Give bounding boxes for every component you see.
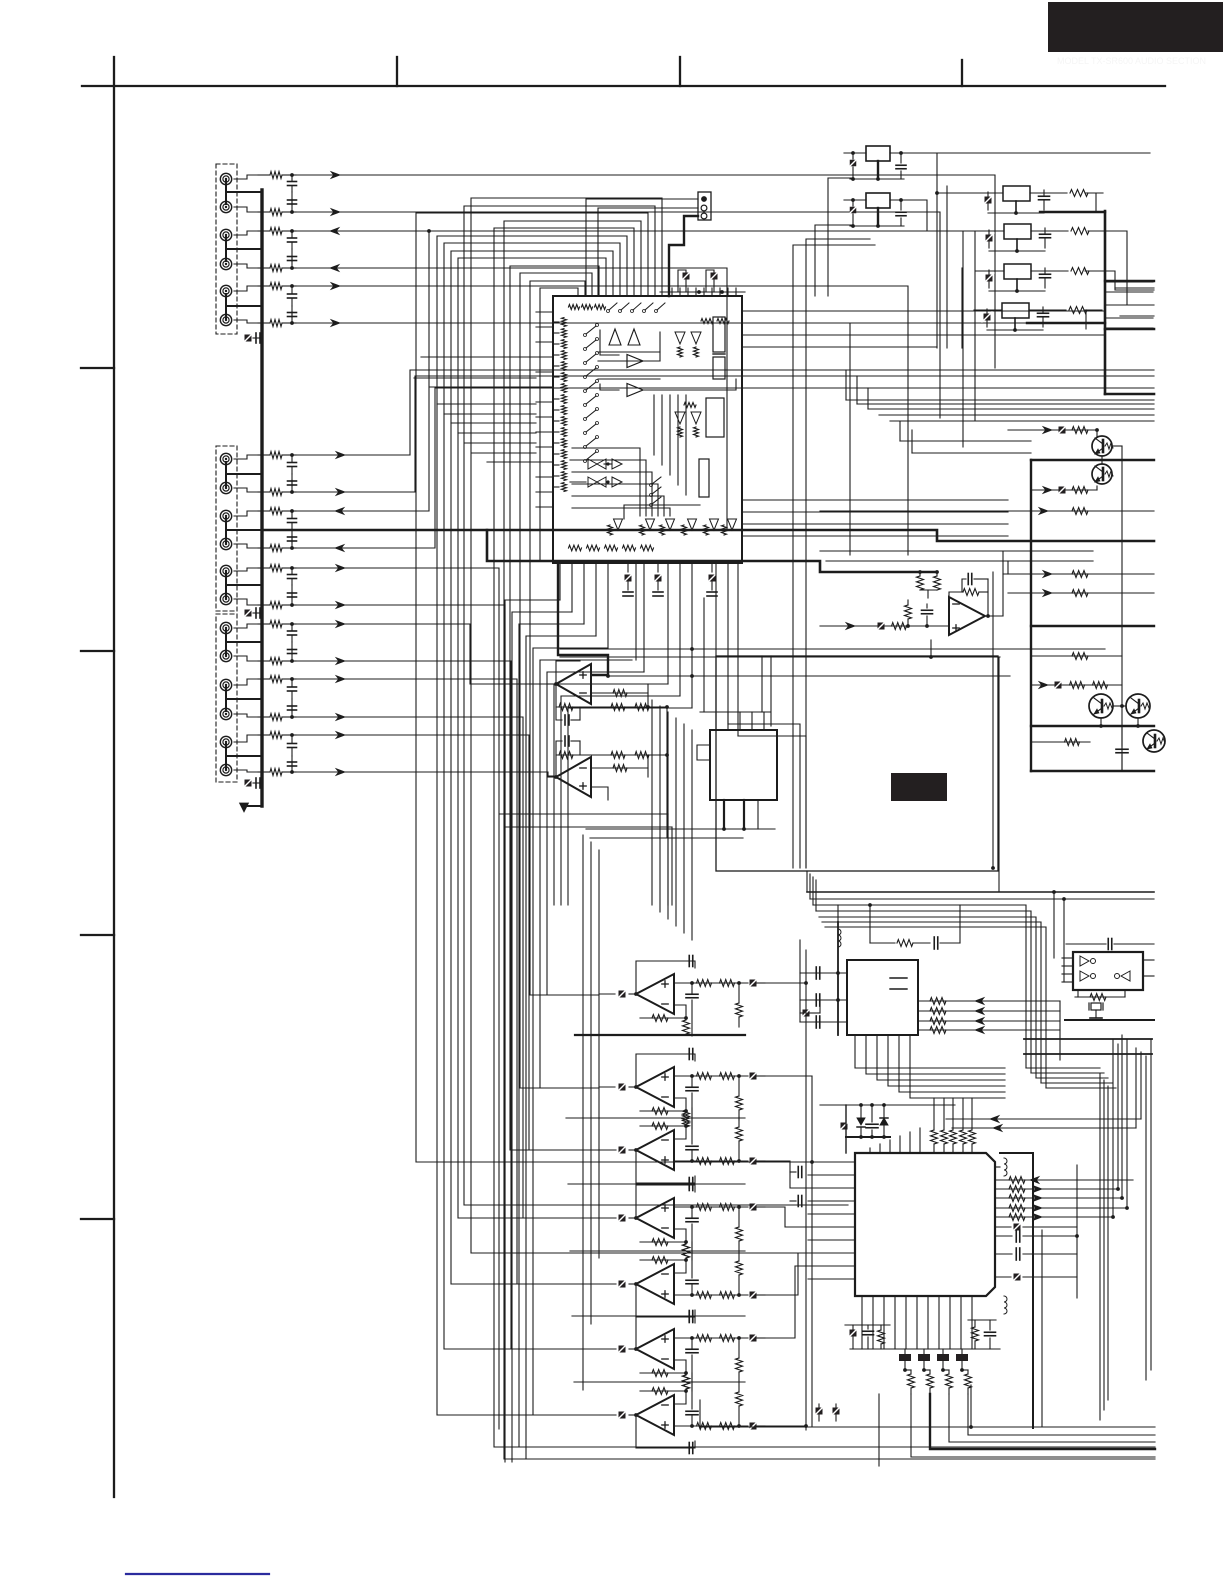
wire U1 internal f	[570, 459, 586, 461]
wire CN2 signal 6	[296, 605, 616, 1415]
wire FL3 in	[976, 270, 1004, 272]
bead U5 right	[1014, 1224, 1021, 1231]
resistor U1 G	[701, 319, 713, 324]
wire table feed y400	[846, 399, 1154, 401]
wire relay RY2 out	[892, 200, 976, 231]
RCA jack CN1-5	[220, 285, 231, 296]
wire u4 right risers	[1059, 1001, 1061, 1060]
resistor R B4 out gnd	[736, 1227, 743, 1241]
wire B7 out row	[674, 1425, 748, 1427]
wire band-to-U1 1	[421, 356, 536, 358]
arrow U4 row 4	[975, 1027, 984, 1034]
wire U5 bottom pin 5	[905, 1296, 907, 1349]
wire right row y281 heavy	[1105, 280, 1154, 282]
wire web route 7	[444, 243, 620, 1349]
capacitor C B7 fb	[688, 1443, 690, 1454]
bead FB B4 out	[750, 1204, 757, 1211]
row y593: arrow+res	[1008, 592, 1154, 594]
capacitor C28	[291, 649, 293, 662]
transistor Q3	[1089, 694, 1113, 718]
wire U5 left col x846	[845, 1105, 847, 1153]
wire U1 bottom pin 9	[657, 563, 659, 572]
capacitor A2 comp	[556, 741, 562, 755]
wire U5 left pin 6	[808, 1226, 855, 1228]
wire FL col x975	[974, 231, 976, 420]
resistor A2 in	[613, 765, 627, 772]
bead FB U5 top	[841, 1123, 848, 1130]
FL5 bowtie b	[1080, 971, 1089, 981]
jumper W2	[923, 1349, 925, 1354]
op-amp B1 plus	[662, 983, 668, 985]
wire drop right a	[728, 724, 800, 868]
capacitor C U5 r1	[995, 1235, 1012, 1237]
wire CN1 shield tie 3	[225, 294, 227, 318]
wire right bundle y305	[1105, 304, 1153, 306]
resistor U1 input array 16	[562, 483, 567, 492]
wire FL col x962	[961, 268, 963, 348]
wire RY1 top	[844, 152, 866, 154]
bead FB B2 out	[750, 1073, 757, 1080]
wire RY2 top	[844, 199, 866, 201]
wire right band v3	[1107, 1086, 1109, 1400]
wire U1 right pin 8	[742, 535, 1008, 537]
resistor R24	[258, 547, 270, 549]
wire U5 top pin 3	[889, 1140, 891, 1153]
resistor R B6 gnd	[683, 1375, 690, 1389]
op-amp B3 plus	[662, 1159, 668, 1161]
arrow CN2 signal 7	[336, 621, 345, 628]
wire U1 bottom pin 14	[715, 563, 717, 712]
wire CN1 signal 4	[296, 268, 727, 530]
wire U5 left pin 2	[808, 1174, 855, 1176]
row y490: arrow+bead+res	[1031, 489, 1097, 491]
resistor R B5 out gnd	[736, 1261, 743, 1275]
resistor U1 bottom row 1	[569, 545, 582, 551]
resistor R B7b	[720, 1423, 735, 1430]
capacitor C FL5 top	[1066, 943, 1106, 945]
resistor U1 input array 4	[562, 351, 567, 360]
capacitor C29	[291, 679, 293, 686]
op-amp B4 plus	[662, 1207, 668, 1209]
capacitor C B5 fb	[688, 1312, 690, 1323]
wire CN1 shield tie 2	[225, 237, 227, 261]
op-amp B6 minus	[662, 1358, 668, 1360]
wire U1 bottom pin 12	[691, 563, 693, 708]
wire U5 bottom pin 9	[949, 1296, 951, 1349]
RCA jack CN2-2	[220, 482, 231, 493]
resistor R U5 top 4	[962, 1098, 964, 1130]
resistor R FL3	[1071, 268, 1089, 275]
table row y771 bottom	[1031, 770, 1154, 772]
buffer U1 A	[609, 329, 621, 345]
driver U1 bottom 1	[614, 519, 623, 530]
junction long-run x429	[427, 229, 431, 233]
wire U1 bottom pin 11	[679, 563, 681, 696]
wire Q3 drop	[1100, 719, 1102, 726]
wire table feed y409	[868, 408, 1154, 410]
resistor R B3 out gnd	[736, 1127, 743, 1141]
wire B2 fb tail	[640, 1098, 686, 1111]
block U1 K	[706, 398, 724, 437]
wire U5 left pin 10	[808, 1278, 855, 1280]
title block (filled)	[1048, 2, 1223, 52]
resistor U3 series	[892, 623, 907, 630]
wire U1 left pin 7	[536, 401, 553, 403]
wire right band v1	[1099, 1074, 1101, 1420]
wire x937 drop	[936, 153, 938, 348]
wire row y814 riser	[667, 814, 669, 905]
arrow U4 row 1	[975, 998, 984, 1005]
wire B3 fb tail	[640, 1126, 686, 1139]
resistor R B4 gnd	[683, 1244, 690, 1258]
wire B6 loop	[636, 1316, 695, 1349]
wire U4 right pin row 4	[918, 1029, 1060, 1031]
op-amp B4 body	[636, 1198, 674, 1238]
svg-text:MODEL TX-SR600 AUDIO SECTION: MODEL TX-SR600 AUDIO SECTION	[1057, 56, 1206, 66]
wire band-to-U1 10	[487, 461, 536, 463]
resistor U1 input array 15	[562, 472, 567, 481]
wire web route 13	[471, 198, 848, 1253]
wire B6 input	[600, 1348, 615, 1350]
arrow CN1 signal 3	[330, 228, 339, 235]
resistor A2 fb1	[611, 752, 625, 759]
bead FB FL1	[985, 197, 992, 204]
RCA jack CN2-9	[220, 679, 231, 690]
resistor R B4b	[720, 1204, 735, 1211]
switch U1 3	[586, 354, 596, 362]
wire x947 drop	[946, 186, 948, 348]
capacitor U3 in	[926, 604, 928, 608]
bead FB1 with cap at CN1 bottom	[245, 335, 252, 342]
RCA jack CN2-1	[220, 453, 231, 464]
bead FB2 with cap between CN2/CN3	[245, 610, 252, 617]
wire table feed y404	[857, 403, 1154, 405]
wire U5 left pin 7	[808, 1239, 855, 1241]
wire U1 internal h	[624, 505, 700, 519]
wire U1 left pin 3	[536, 341, 553, 343]
capacitor C B6 fb	[688, 1311, 690, 1322]
wire B1 out row	[674, 982, 748, 984]
block U1 I	[713, 317, 725, 352]
IC U4 inner mark2	[890, 988, 907, 990]
wire row y827 riser	[671, 827, 673, 905]
wire heavy run y561	[487, 530, 937, 572]
wire jumper tail 2	[930, 1394, 1155, 1449]
capacitor C FL1	[1043, 190, 1045, 195]
wire U1 left pin 14	[536, 506, 553, 508]
resistor U1 input array 7	[562, 384, 567, 393]
wire right band v9	[1140, 1052, 1142, 1119]
wire FL4 out	[1085, 310, 1086, 329]
diode D2	[883, 1105, 885, 1118]
opamp U1 C	[627, 355, 643, 368]
capacitor C210	[291, 705, 293, 717]
wire heavy y329 row	[1105, 328, 1154, 331]
wire U1 right pin 5	[742, 499, 1008, 501]
op-amp B5 body	[636, 1264, 674, 1304]
wire band-to-U1 2	[414, 377, 536, 379]
resistor R13	[258, 230, 270, 232]
wire table feed risers	[845, 370, 847, 400]
wire right hbundle risers	[806, 871, 808, 892]
switch U1 6	[586, 396, 596, 404]
wire bus drop 7	[547, 672, 644, 995]
switch U1 Q col	[652, 477, 661, 484]
wire FL1 in	[937, 192, 1003, 194]
resistor R U4r2	[930, 1008, 946, 1015]
wire table feed y415	[879, 414, 1154, 416]
resistor R U5 top 2	[943, 1098, 945, 1130]
inductor L U5 b	[1004, 1296, 1007, 1314]
transistor Q2	[1092, 464, 1112, 484]
resistor R22	[258, 491, 270, 493]
wire FL5 xtal stub	[1095, 1010, 1097, 1018]
wire right hbundle y899	[810, 898, 1154, 900]
wire B3 out row	[674, 1160, 748, 1162]
resistor U1 top row 3	[595, 305, 606, 310]
inverter U1 L	[675, 412, 685, 424]
op-amp B3 minus	[662, 1139, 668, 1141]
wire web route 4	[510, 266, 614, 1150]
table outline left edge	[1030, 460, 1032, 771]
frame tick left A	[81, 367, 114, 369]
bead FB FL4	[984, 314, 991, 321]
resistor U1 input array 3	[562, 340, 567, 349]
resistor R212	[258, 771, 270, 773]
wire B6 fb tail	[640, 1360, 686, 1373]
capacitor C12	[291, 199, 293, 212]
driver U1 bottom 5	[710, 519, 719, 530]
filter FL5 outline	[1073, 952, 1143, 990]
wire center drop v2	[590, 842, 592, 1324]
resistor U1 input array 10	[562, 417, 567, 426]
wire center drop v7	[675, 718, 677, 926]
wire A1 fb row	[556, 684, 667, 707]
arrow U5 row 2	[1033, 1186, 1042, 1193]
wire U5 bottom pin 7	[927, 1296, 929, 1349]
capacitor C14	[291, 256, 293, 269]
wire FL4 out	[1029, 309, 1066, 311]
wire B3 input	[600, 1149, 615, 1151]
wire right bundle y282	[1105, 281, 1153, 283]
wire left drop to bundle	[878, 1394, 880, 1466]
row y574: arrow+res	[1003, 573, 1154, 575]
wire U5 top pin 6	[919, 1128, 921, 1153]
wire J1 heavy drop	[669, 216, 698, 296]
wire center drop v5	[659, 706, 661, 912]
mixer U1 O bowtie	[588, 459, 597, 469]
wire U5 left pin 4	[808, 1200, 855, 1202]
wire CN2 signal 10	[296, 717, 616, 1218]
resistor R16	[258, 322, 270, 324]
wire FL2 out	[1088, 231, 1154, 305]
wire U4 bottom pins	[855, 1035, 1005, 1068]
resistor R U4 top	[870, 942, 895, 944]
wire U5 left pin 8	[808, 1252, 855, 1254]
wire center drop v4	[651, 700, 653, 905]
jumper W1	[904, 1349, 906, 1354]
wire top y153	[937, 152, 1150, 154]
wire B5 fb tail	[640, 1260, 686, 1273]
wire U5 top rail y1105	[820, 1104, 955, 1106]
wire FL1 bottom rail	[988, 212, 1044, 214]
wire right band v10	[1145, 1056, 1147, 1380]
resistor R26	[258, 604, 270, 606]
transistor Q4	[1126, 694, 1150, 718]
wire U5 left pin 9	[808, 1265, 855, 1267]
capacitor C U5 r2	[995, 1253, 1012, 1255]
capacitor C table	[1121, 726, 1123, 746]
inverter U1 E	[675, 332, 685, 344]
arrow CN1 signal 4	[330, 265, 339, 272]
resistor R U5 r3	[1009, 1195, 1025, 1202]
resistor R B1 gnd	[683, 1020, 690, 1034]
wire table feed y441	[900, 440, 1031, 442]
wire right hbundle y917	[819, 917, 1036, 1078]
bead FB B5 out	[750, 1292, 757, 1299]
bead FB B4 in	[619, 1215, 626, 1222]
label block (filled)	[891, 773, 947, 801]
resistor R211	[258, 734, 270, 736]
arrow CN2 signal 5	[336, 565, 345, 572]
frame tick left B	[81, 650, 114, 652]
wire U1 right pin 4	[742, 346, 937, 348]
bead FB top a	[683, 273, 690, 280]
filter FL4 outline	[1002, 303, 1029, 318]
wire center drop v3	[598, 850, 600, 1258]
switch U1 4	[586, 368, 596, 376]
resistor U1 bottom row 3	[605, 545, 618, 551]
wire FL3 out	[1085, 271, 1154, 290]
wire gray row y1039	[1024, 1038, 1152, 1040]
wire U5 bottom pin 10	[960, 1296, 962, 1349]
wire U5 bottom pin 1	[861, 1296, 863, 1349]
wire U1 bottom pin 7	[635, 563, 637, 660]
arrow CN1 signal 2	[331, 209, 340, 216]
arrow CN2 signal 10	[336, 714, 345, 721]
RCA jack CN2-10	[220, 708, 231, 719]
wire CN2 shield tie 4	[225, 630, 227, 654]
wire heavy run y530	[262, 530, 1154, 541]
resistor R12	[258, 211, 270, 213]
wire long y649	[560, 648, 1105, 650]
wire right band v8	[1135, 1048, 1137, 1128]
switch U1 1	[586, 326, 596, 334]
wire bus drop 4	[526, 636, 596, 1459]
arrow U4 row 3	[975, 1018, 984, 1025]
wire U1 bottom pin 6	[627, 563, 629, 572]
capacitor C B4 gnd	[691, 1207, 693, 1218]
driver U1 bottom 6	[728, 519, 737, 530]
wire U1 left pin 8	[536, 416, 553, 418]
resistor R B4a	[697, 1204, 712, 1211]
wire CN2 signal 2	[296, 376, 1154, 492]
capacitor A1 comp	[556, 707, 562, 720]
wire web route 9	[494, 228, 1155, 1447]
wire U1 left pin 6	[536, 386, 553, 388]
frame tick left C	[81, 934, 114, 936]
arrow U5 row 5	[1033, 1214, 1042, 1221]
wire U2 top loop	[700, 711, 770, 713]
bead U5 right low	[1014, 1274, 1021, 1281]
capacitor U3 fb	[962, 579, 966, 592]
resistor A1 fb1	[611, 704, 625, 711]
wire U5 bottom pin 4	[894, 1296, 896, 1349]
footer rule (blue)	[126, 1573, 269, 1575]
wire U1 right pin 6	[742, 511, 1008, 513]
wire center drop v8	[683, 724, 685, 933]
IC U1 outline	[553, 296, 742, 563]
resistor U1 input array 5	[562, 362, 567, 371]
wire bus drop 9	[561, 696, 680, 905]
arrow CN1 signal 1	[331, 172, 340, 179]
wire right hbundle y922	[822, 922, 1041, 1083]
wire CN1 shield tie 1	[225, 180, 227, 204]
arrow CN2 signal 8	[336, 658, 345, 665]
wire jumper 2 drop	[923, 1361, 925, 1370]
resistor U1 H	[717, 319, 729, 324]
op-amp A2 plus	[580, 785, 586, 787]
wire B4 out row	[674, 1206, 748, 1208]
wire CN2 signal 12	[296, 772, 553, 776]
resistor R B7 fb	[652, 1388, 668, 1395]
wire bus drop 6	[540, 660, 632, 1088]
resistor R B2b	[720, 1073, 735, 1080]
capacitor C U4 top	[933, 937, 935, 949]
wire A1 input	[548, 683, 556, 685]
wire U1 extra top pins	[671, 288, 673, 296]
wire bottom riser x971	[970, 1385, 972, 1427]
capacitor C FL3	[1044, 268, 1046, 273]
wire U2 left pin	[697, 745, 710, 760]
wire heavy x1105 vertical	[1104, 211, 1107, 394]
wire stage rail y1251	[570, 1250, 745, 1252]
bead FB B1 in	[619, 991, 626, 998]
ground bus heavy vertical	[260, 190, 263, 806]
resistor A2 fb2	[635, 752, 649, 759]
resistor R210	[258, 716, 270, 718]
wire U4 right pin row 2	[918, 1010, 1060, 1012]
wire Q4 drop	[1137, 719, 1139, 726]
wire right hbundle y892	[807, 891, 1154, 893]
resistor R B3 gnd	[683, 1110, 690, 1124]
op-amp A1	[556, 664, 591, 704]
wire U5 right pin 5	[995, 1216, 1113, 1218]
cluster U5 bl: bead+cap+res	[850, 1330, 857, 1337]
wire heavy y394 row	[1105, 393, 1154, 396]
wire FL3 bottom rail	[989, 290, 1045, 292]
wire B1 out drop	[765, 982, 806, 984]
resistor R B5a	[697, 1292, 712, 1299]
switch U1 top 2	[621, 303, 629, 310]
resistor R B6b	[720, 1335, 735, 1342]
arrow CN2 signal 12	[336, 769, 345, 776]
connector CN3 dashed outline	[216, 614, 237, 782]
connector J1 pin2	[701, 205, 707, 211]
wire U1 bottom pin 1	[559, 563, 561, 600]
wire right hbundle y911	[816, 911, 1031, 1073]
wire row y829	[586, 828, 775, 830]
wire U2 top pin 1	[715, 712, 717, 730]
op-amp B2 plus	[662, 1076, 668, 1078]
capacitor C RY2	[900, 200, 902, 210]
capacitor C B6 gnd	[691, 1338, 693, 1349]
table row y726	[1031, 725, 1154, 727]
switch U1 5	[586, 382, 596, 390]
wire right bundle y292	[1105, 291, 1153, 293]
resistor U1 input array 1	[562, 318, 567, 327]
wire band-to-U1 8	[465, 442, 536, 444]
